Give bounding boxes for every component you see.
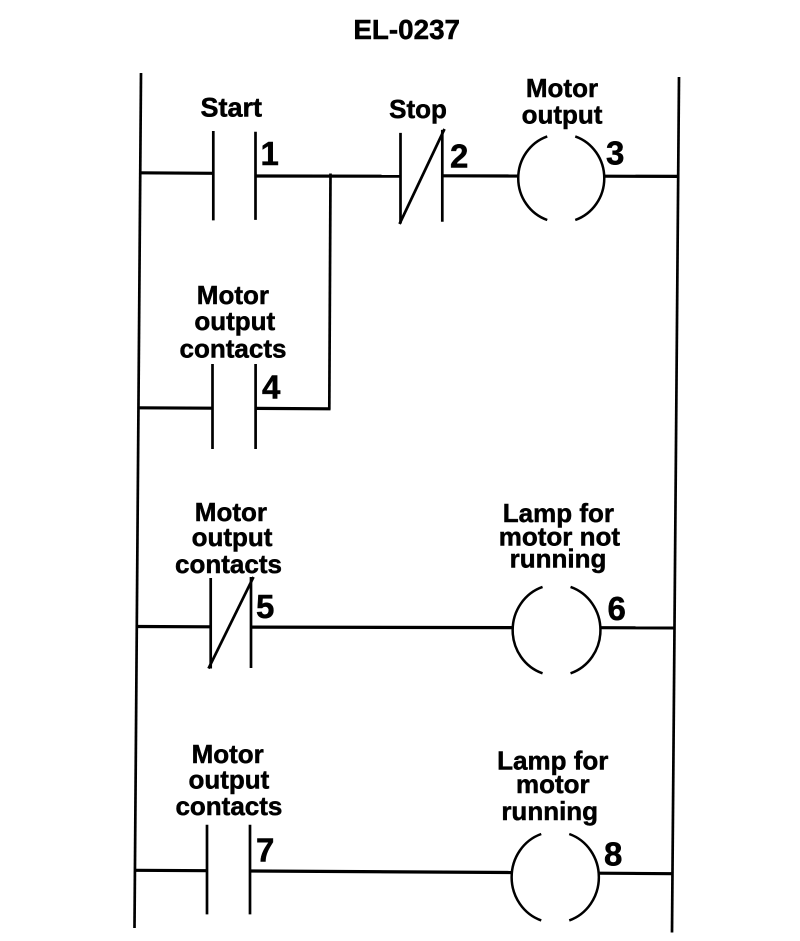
svg-text:running: running	[501, 796, 598, 826]
svg-text:output: output	[192, 522, 273, 552]
contact 7 (Motor output contacts, NO)	[207, 825, 250, 915]
contact 5 (Motor output contacts, NC)	[209, 577, 254, 669]
right power rail	[672, 77, 679, 933]
wire rung3 rail to contact7	[136, 869, 208, 873]
wire rung1 contact1 to contact2	[256, 174, 402, 177]
svg-text:EL-0237: EL-0237	[353, 14, 460, 45]
wire rung2 contact5 to coil6	[251, 625, 513, 629]
svg-text:1: 1	[261, 135, 279, 172]
contact 4 (Motor output contacts, NO)	[213, 364, 256, 449]
svg-text:Stop: Stop	[389, 94, 447, 124]
svg-text:motor: motor	[516, 769, 590, 799]
svg-text:3: 3	[606, 135, 624, 172]
svg-text:8: 8	[604, 835, 622, 872]
wire branch vertical	[329, 174, 330, 410]
wire rung2 rail to contact5	[138, 625, 212, 628]
wire rung2 coil6 to rail	[601, 626, 676, 629]
svg-text:contacts: contacts	[175, 549, 282, 579]
wire rung3 contact7 to coil8	[250, 871, 512, 873]
svg-text:contacts: contacts	[180, 334, 287, 364]
label Motor output	[522, 73, 603, 130]
label Lamp for motor running	[497, 746, 608, 827]
contact 1 (Start, NO)	[213, 131, 255, 220]
svg-text:Start: Start	[200, 93, 262, 123]
svg-text:output: output	[188, 765, 269, 795]
coil 8 (Lamp for motor running)	[512, 834, 599, 920]
svg-text:5: 5	[256, 588, 274, 625]
coil 6 (Lamp for motor not running)	[513, 587, 601, 673]
svg-text:running: running	[510, 544, 607, 574]
svg-text:output: output	[522, 100, 603, 130]
wire rung1 coil3 to rail	[604, 175, 678, 178]
svg-text:contacts: contacts	[175, 791, 282, 821]
svg-text:7: 7	[256, 832, 274, 869]
wire branch rung right	[256, 407, 331, 411]
svg-text:Motor: Motor	[526, 73, 598, 103]
label Motor output contacts (branch)	[180, 280, 287, 364]
label Lamp for motor not running	[499, 498, 621, 574]
label Motor output contacts (rung2)	[175, 497, 282, 579]
coil 3 (Motor output)	[518, 136, 604, 220]
left power rail	[135, 73, 142, 928]
contact 2 (Stop, NC)	[400, 129, 445, 224]
wire rung1 rail to contact1	[139, 171, 214, 175]
svg-text:output: output	[194, 306, 275, 336]
wire rung1 contact2 to coil3	[443, 174, 519, 177]
wire branch rung left	[139, 406, 214, 410]
wire rung3 coil8 to rail	[599, 872, 673, 876]
svg-text:4: 4	[262, 369, 281, 406]
svg-text:2: 2	[450, 138, 468, 175]
label Motor output contacts (rung3)	[175, 739, 282, 821]
svg-text:6: 6	[608, 590, 626, 627]
